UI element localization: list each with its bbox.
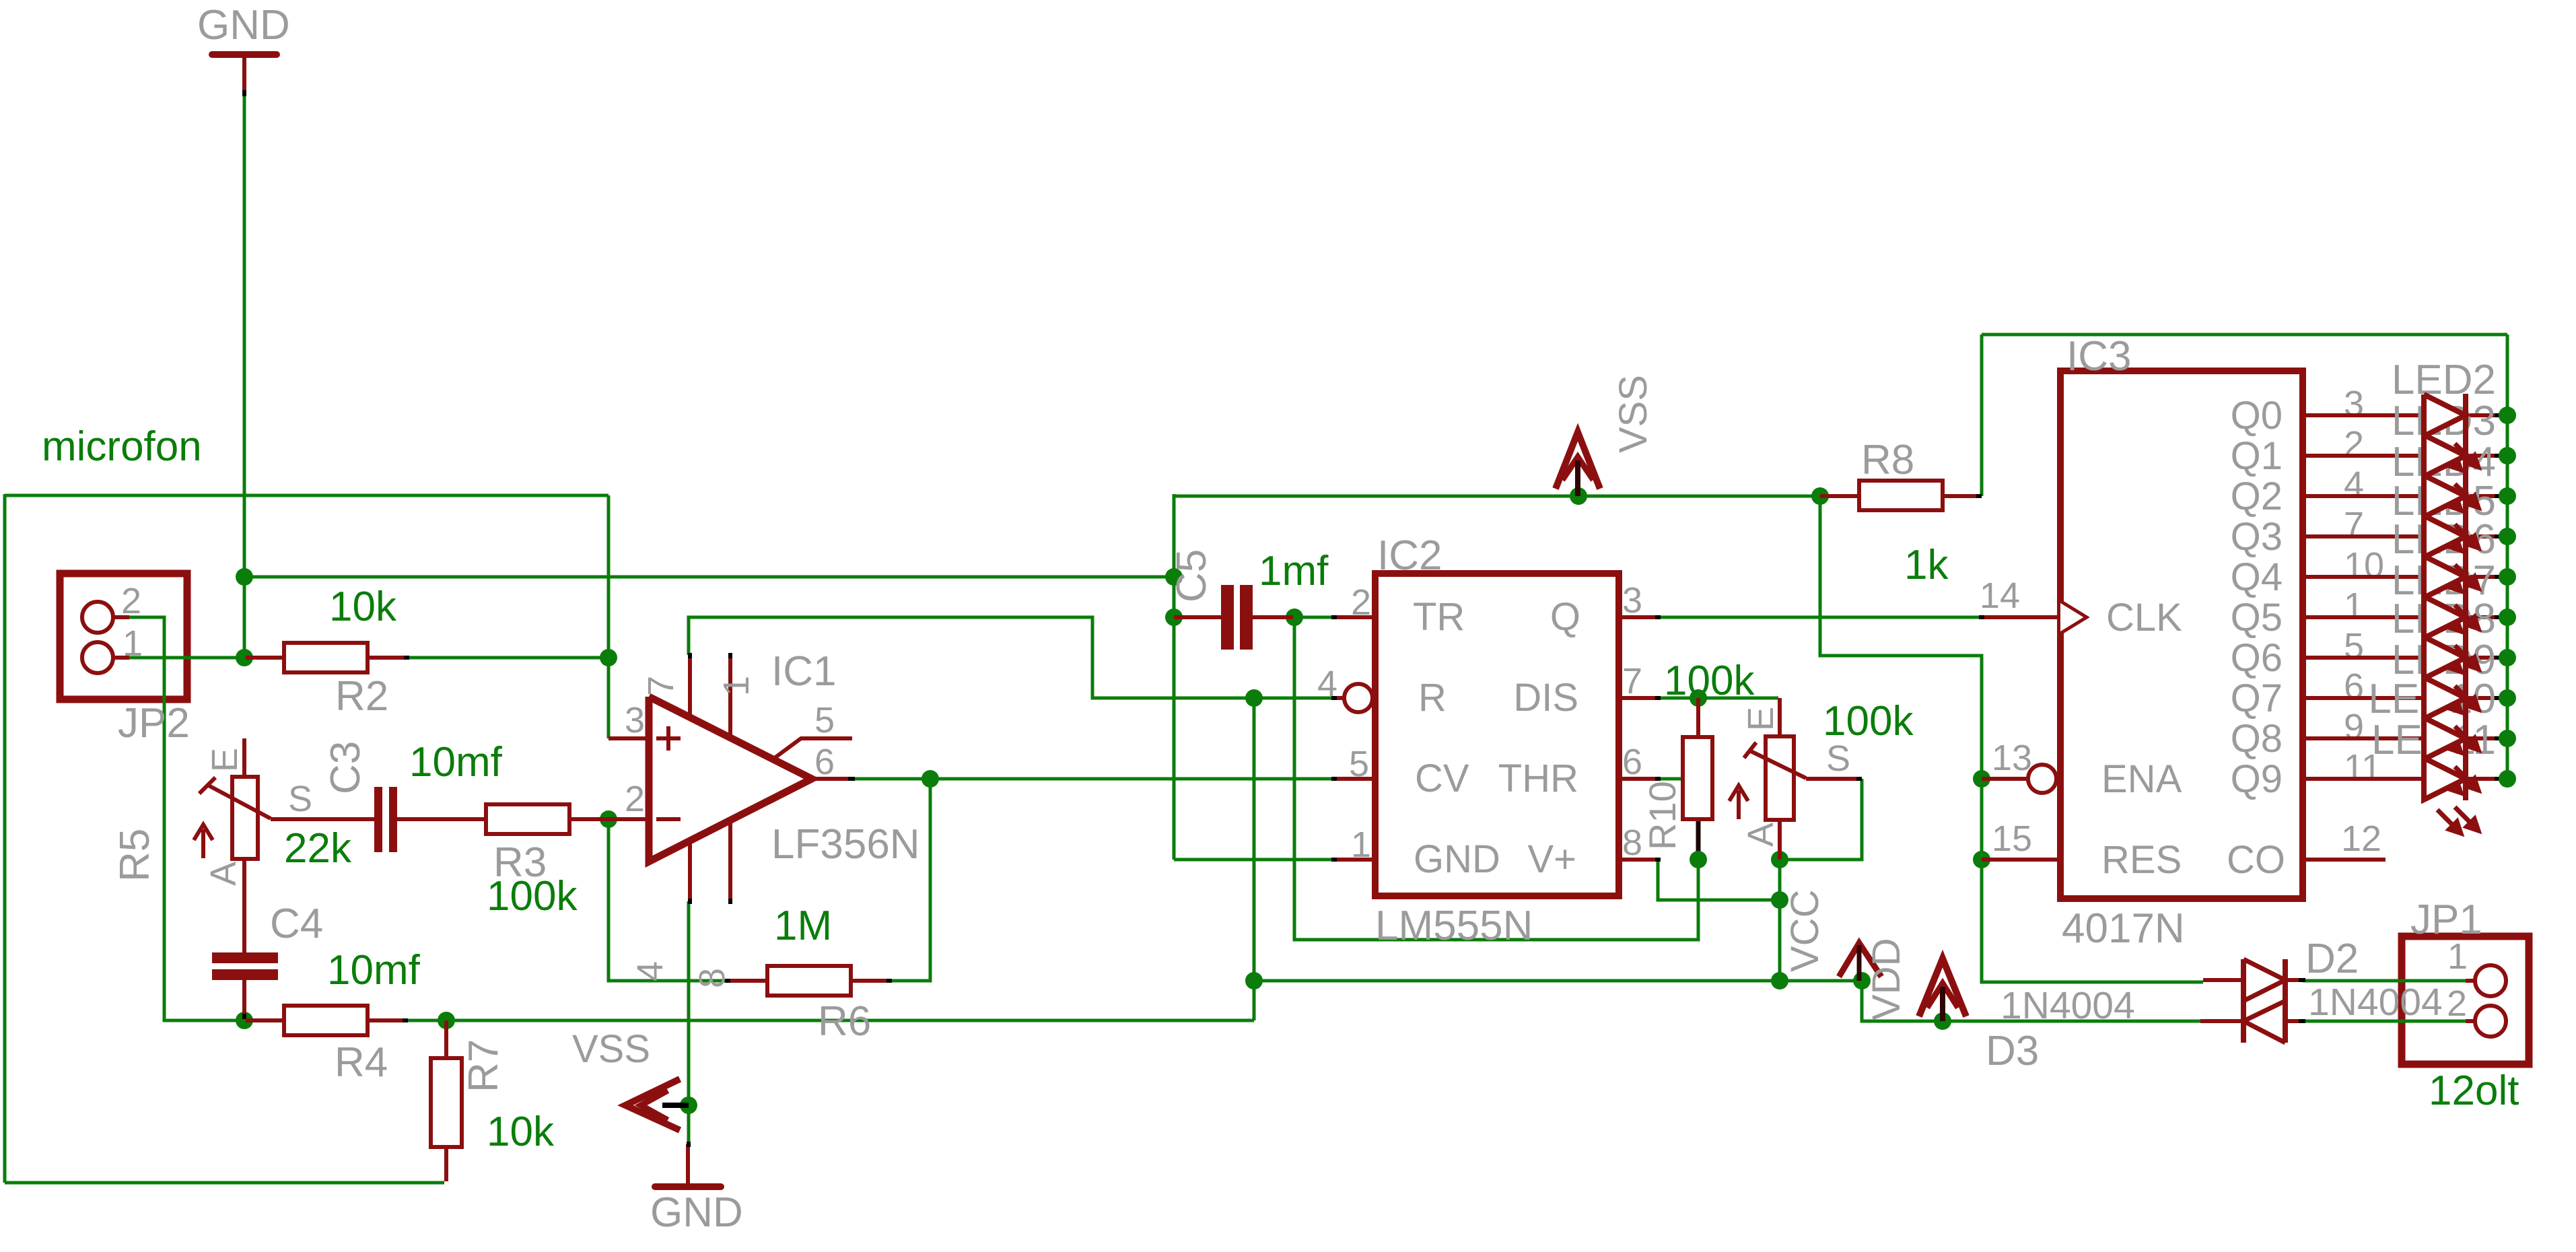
svg-text:1M: 1M [774, 903, 832, 949]
svg-text:E: E [1741, 707, 1781, 731]
wire long run y=1516 to x=1863 [446, 1019, 1254, 1022]
svg-text:GND: GND [197, 2, 290, 48]
svg-text:1: 1 [1351, 825, 1371, 865]
svg-text:ENA: ENA [2101, 757, 2182, 801]
svg-text:R2: R2 [335, 673, 388, 720]
node junction 2766,1457 [1853, 972, 1871, 989]
potentiometer R9 arrow [1737, 790, 1741, 819]
svg-text:6: 6 [814, 742, 835, 782]
svg-text:Q2: Q2 [2231, 475, 2283, 518]
svg-text:7: 7 [2344, 505, 2364, 545]
wire TR net down-right to THR node [1294, 617, 1698, 940]
svg-text:Q: Q [1550, 595, 1580, 639]
node junction 1382,1157 [921, 770, 939, 788]
op-amp IC1 triangle [649, 697, 812, 862]
svg-text:Q7: Q7 [2231, 676, 2283, 720]
potentiometer R5 wiper [209, 786, 271, 819]
svg-text:13: 13 [1992, 738, 2032, 778]
svg-text:Q5: Q5 [2231, 596, 2283, 639]
wire LED4 row [2303, 494, 2501, 498]
op-amp IC1 pin 2 [608, 817, 649, 821]
node junction 2704,737 [1811, 487, 1829, 505]
wire main rail y=857 [244, 576, 1174, 579]
capacitor C5 [1174, 615, 1221, 619]
ic IC2 pin 6 THR [1619, 777, 1658, 781]
node LED rail junction 9 [2499, 770, 2516, 788]
svg-text:12olt: 12olt [2429, 1068, 2519, 1114]
wire THR stub [1658, 777, 1683, 781]
svg-text:8: 8 [1622, 823, 1642, 863]
ic IC2 pin 8 V+ [1619, 858, 1658, 862]
connector JP1 box [2402, 936, 2529, 1064]
op-amp IC1 pin 7 [688, 655, 692, 718]
svg-text:CLK: CLK [2106, 596, 2182, 639]
svg-text:5: 5 [2344, 626, 2364, 666]
resistor R6 [728, 979, 768, 983]
svg-text:100k: 100k [487, 873, 578, 919]
svg-text:6: 6 [2344, 666, 2364, 707]
ic IC3 pin 15 RES [1982, 858, 2060, 862]
svg-text:Q8: Q8 [2231, 717, 2283, 761]
wire LED9 row [2303, 696, 2501, 700]
LED LED5 [2424, 516, 2466, 557]
svg-text:Q3: Q3 [2231, 515, 2283, 559]
svg-text:7: 7 [641, 676, 681, 696]
node LED rail junction 5 [2499, 608, 2516, 626]
ic IC3 pin 14 CLK [1982, 615, 2060, 619]
svg-text:C3: C3 [322, 741, 369, 794]
wire op-amp output to CV [854, 777, 1333, 781]
node junction 2644,1337 [1771, 891, 1788, 909]
wire D3 right to JP1 pin2 [2303, 1020, 2475, 1023]
svg-text:D3: D3 [1986, 1028, 2039, 1074]
wire LED6 row [2303, 575, 2501, 579]
wire THR hidden segment dark [1696, 821, 1701, 856]
wire VSS rail y=737 [1174, 495, 1820, 498]
svg-text:S: S [288, 779, 312, 819]
wire inverting feedback down [608, 819, 728, 981]
wire VDD to D3 row [1862, 981, 2203, 1021]
svg-text:R7: R7 [460, 1039, 507, 1092]
svg-text:microfon: microfon [42, 423, 202, 470]
wire bottom-left rail to R7 [5, 1181, 444, 1185]
ground GND top symbol [212, 51, 277, 58]
svg-text:GND: GND [650, 1189, 743, 1236]
node junction 1023,1642 [680, 1097, 697, 1114]
wire C5 right to TR [1294, 616, 1333, 619]
wire Q to CLK [1658, 616, 1982, 619]
svg-text:Q6: Q6 [2231, 636, 2283, 680]
wire JP2 pin1 to junction [128, 656, 244, 660]
potentiometer R9 body [1766, 736, 1794, 820]
wire LED5 row [2303, 534, 2501, 538]
ic IC2 pin 3 Q [1619, 615, 1658, 619]
svg-text:2: 2 [2447, 983, 2467, 1024]
svg-text:1N4004: 1N4004 [2000, 984, 2135, 1027]
wire D2 right to JP1 pin1 [2303, 979, 2475, 983]
op-amp IC1 plus input mark [656, 736, 681, 740]
wire JP2 pin2 down [128, 617, 244, 1020]
LED LED4 [2424, 475, 2466, 517]
wire LED cathode rail [2506, 335, 2509, 779]
svg-text:9: 9 [2344, 707, 2364, 747]
node junction 663,1516 [438, 1012, 455, 1029]
svg-text:A: A [1741, 823, 1781, 847]
svg-text:1mf: 1mf [1259, 548, 1329, 594]
LED LED11 [2424, 758, 2466, 800]
op-amp IC1 minus input mark [656, 817, 681, 821]
ic IC3 pin 13 ENA inverted [1982, 777, 2028, 781]
diode D2 [2241, 959, 2246, 1001]
resistor R10 [1696, 698, 1700, 737]
ic IC2 pin 2 TR [1333, 615, 1375, 619]
svg-text:VSS: VSS [1611, 375, 1655, 453]
svg-text:RES: RES [2101, 838, 2182, 882]
diode D3 [2283, 1001, 2288, 1043]
wire DIS to pot E [1658, 697, 1778, 700]
LED LED10 [2424, 718, 2466, 759]
node junction 2523,1277 [1690, 851, 1707, 868]
op-amp IC1 pin 4 [688, 841, 692, 901]
svg-text:C4: C4 [270, 901, 323, 947]
svg-text:R4: R4 [335, 1039, 388, 1086]
svg-text:8: 8 [692, 968, 732, 988]
svg-text:10mf: 10mf [327, 947, 421, 994]
svg-text:Q1: Q1 [2231, 434, 2283, 478]
ic IC2 pin 1 GND [1333, 858, 1375, 862]
svg-text:CO: CO [2227, 838, 2285, 882]
resistor R3 [486, 804, 569, 834]
svg-text:5: 5 [1349, 744, 1369, 784]
wire R2 right to + node [407, 656, 608, 660]
svg-text:JP1: JP1 [2410, 897, 2482, 943]
svg-text:10mf: 10mf [409, 739, 503, 786]
svg-text:VSS: VSS [572, 1027, 650, 1071]
node junction 1744,917 [1165, 608, 1183, 626]
node LED rail junction 8 [2499, 730, 2516, 747]
LED LED6 [2424, 556, 2466, 598]
op-amp IC1 pin 6 output [812, 777, 852, 781]
node junction 2944,1157 [1973, 770, 1990, 788]
wire LED3 row [2303, 454, 2501, 458]
node junction 2523,1037 [1690, 689, 1707, 707]
wire wiper return [1780, 779, 1862, 860]
wire left edge vertical [3, 494, 7, 1183]
svg-text:100k: 100k [1823, 698, 1914, 744]
wire vertical x=1744 [1173, 494, 1176, 860]
supply VDD arrow [1839, 943, 1881, 977]
wire top rail to LED column [1982, 333, 2507, 337]
LED LED3 [2424, 435, 2466, 477]
node junction 2944,1277 [1973, 851, 1990, 868]
op-amp IC1 pin 8 [728, 821, 732, 901]
node LED rail junction 6 [2499, 649, 2516, 666]
connector JP2 pin 2 circle [82, 602, 113, 633]
svg-text:Q9: Q9 [2231, 757, 2283, 801]
svg-text:CV: CV [1415, 757, 1469, 800]
wire V+ down-right [1658, 860, 1780, 900]
svg-text:D2: D2 [2305, 936, 2359, 982]
wire R4 right to R7 node [407, 1019, 446, 1022]
svg-text:5: 5 [814, 700, 835, 740]
svg-text:2: 2 [625, 779, 645, 819]
wire LED10 row [2303, 736, 2501, 740]
wire GND top stem [243, 95, 246, 658]
node junction 363,1516 [236, 1012, 253, 1029]
svg-text:R8: R8 [1861, 437, 1914, 483]
node junction 1863,1037 [1245, 689, 1263, 707]
connector JP1 pin 1 circle [2475, 965, 2506, 996]
resistor R2 [246, 656, 284, 660]
wire IC2 GND row [1174, 858, 1333, 862]
LED LED2 [2424, 394, 2466, 436]
wire R8 right vertical up [1980, 335, 1984, 496]
svg-text:6: 6 [1622, 742, 1642, 782]
svg-text:1: 1 [123, 623, 143, 664]
node junction 904,1217 [600, 810, 617, 828]
ic IC2 pin 4 R inverted [1333, 696, 1344, 700]
svg-text:4: 4 [2344, 464, 2364, 505]
svg-text:2: 2 [1351, 582, 1371, 623]
op-amp IC1 pin 3 [608, 736, 649, 740]
node LED rail junction 3 [2499, 528, 2516, 545]
svg-text:R5: R5 [112, 829, 158, 882]
resistor R4 [246, 1018, 284, 1022]
LED LED7 [2424, 596, 2466, 638]
svg-text:IC1: IC1 [771, 648, 836, 695]
potentiometer R5 body [232, 777, 258, 859]
svg-text:V+: V+ [1527, 837, 1576, 881]
resistor R8 [1820, 494, 1858, 498]
potentiometer R5 arrow [201, 829, 205, 858]
ic IC3 4017 box [2060, 371, 2303, 899]
svg-text:IC3: IC3 [2066, 333, 2131, 380]
ic IC2 pin 5 CV [1333, 777, 1375, 781]
resistor R7 [444, 1020, 448, 1058]
svg-text:S: S [1826, 738, 1850, 779]
ic IC3 pin 12 CO [2303, 858, 2386, 862]
wire mic rail top-left (y=736) [5, 494, 608, 497]
svg-text:2: 2 [121, 581, 141, 621]
node junction 363,977 [236, 649, 253, 666]
svg-text:15: 15 [1992, 819, 2032, 859]
svg-text:10: 10 [2344, 545, 2384, 586]
wire LED8 row [2303, 656, 2501, 660]
ground GND bottom symbol [655, 1183, 721, 1190]
node LED rail junction 0 [2499, 407, 2516, 424]
node junction 2644,1457 [1771, 972, 1788, 989]
svg-text:THR: THR [1498, 757, 1578, 800]
supply VSS left arrow [625, 1079, 680, 1130]
node junction 2644,1277 [1771, 851, 1788, 868]
svg-text:DIS: DIS [1513, 676, 1578, 720]
capacitor C3 [271, 817, 374, 821]
node LED rail junction 7 [2499, 689, 2516, 707]
wire LED7 row [2303, 615, 2501, 619]
svg-text:LM555N: LM555N [1375, 903, 1533, 949]
svg-text:7: 7 [1622, 661, 1642, 701]
wire R6 right up to output [891, 779, 930, 981]
potentiometer R9 wiper [1749, 751, 1806, 778]
connector JP1 pin 2 circle [2475, 1006, 2506, 1037]
svg-text:TR: TR [1413, 595, 1465, 639]
svg-text:4: 4 [630, 961, 670, 981]
node junction 1923,917 [1286, 608, 1303, 626]
svg-text:VCC: VCC [1783, 890, 1827, 972]
svg-text:IC2: IC2 [1377, 532, 1442, 579]
wire LED11 row [2303, 777, 2501, 781]
svg-text:GND: GND [1414, 837, 1500, 881]
svg-text:10k: 10k [487, 1109, 555, 1155]
svg-text:Q4: Q4 [2231, 555, 2283, 599]
svg-text:2: 2 [2344, 424, 2364, 464]
svg-text:1k: 1k [1904, 542, 1949, 588]
svg-text:LED2: LED2 [2392, 357, 2496, 403]
connector JP2 pin 1 circle [82, 642, 113, 673]
wire VCC rail y=1457 [1254, 979, 1862, 983]
node junction 904,977 [600, 649, 617, 666]
potentiometer R9 pins [1778, 698, 1782, 736]
svg-text:R6: R6 [818, 998, 871, 1045]
op-amp IC1 pin 5 [773, 738, 852, 759]
op-amp IC1 pin 1 [728, 655, 732, 738]
supply VSS arrow right [1919, 959, 1966, 1016]
wire vertical x=1863 [1253, 698, 1256, 1020]
svg-text:E: E [205, 748, 245, 772]
node junction 2886,1517 [1934, 1012, 1951, 1030]
svg-text:3: 3 [2344, 384, 2364, 424]
capacitor C4 [212, 952, 278, 963]
svg-text:4017N: 4017N [2062, 905, 2185, 952]
node junction 1863,1457 [1245, 972, 1263, 989]
svg-text:14: 14 [1980, 576, 2020, 616]
LED LED8 [2424, 637, 2466, 679]
svg-text:1N4004: 1N4004 [2308, 981, 2443, 1024]
svg-text:1: 1 [2447, 936, 2468, 977]
svg-text:100k: 100k [1664, 658, 1755, 704]
svg-text:22k: 22k [284, 825, 352, 872]
wire LED2 row [2303, 413, 2501, 417]
wire pin4 to GND symbol [687, 901, 691, 1144]
svg-text:JP2: JP2 [118, 700, 190, 746]
node LED rail junction 2 [2499, 487, 2516, 505]
svg-text:1: 1 [2344, 586, 2364, 626]
svg-text:LF356N: LF356N [771, 821, 920, 868]
svg-text:R10: R10 [1641, 781, 1683, 850]
svg-text:A: A [203, 862, 244, 886]
node LED rail junction 4 [2499, 568, 2516, 586]
svg-text:4: 4 [1317, 664, 1337, 704]
ic IC2 pin 7 DIS [1619, 696, 1658, 700]
svg-text:1: 1 [716, 676, 757, 696]
svg-text:3: 3 [625, 700, 645, 740]
wire pin7 net up-over-down [689, 617, 1344, 698]
svg-text:12: 12 [2341, 819, 2381, 859]
svg-text:Q0: Q0 [2231, 394, 2283, 438]
svg-text:VDD: VDD [1865, 938, 1908, 1020]
wire pot A vertical [1778, 860, 1782, 981]
wire op-amp + input vertical [607, 495, 611, 738]
LED LED9 [2424, 677, 2466, 719]
svg-text:R: R [1418, 676, 1447, 720]
svg-text:3: 3 [1622, 580, 1642, 621]
node junction 2345,737 [1570, 487, 1587, 505]
node junction 1744,857 [1165, 568, 1183, 586]
node junction 363,857 [236, 568, 253, 586]
potentiometer R5 pins [242, 738, 246, 777]
ic IC2 555 box [1375, 573, 1619, 896]
node LED rail junction 1 [2499, 447, 2516, 464]
wire VSS drop to ENA/RES/D2 [1820, 496, 2203, 982]
supply VSS arrow above IC2 [1556, 432, 1600, 489]
connector JP2 box [60, 573, 187, 699]
svg-text:C5: C5 [1169, 549, 1215, 602]
svg-text:10k: 10k [329, 584, 397, 630]
